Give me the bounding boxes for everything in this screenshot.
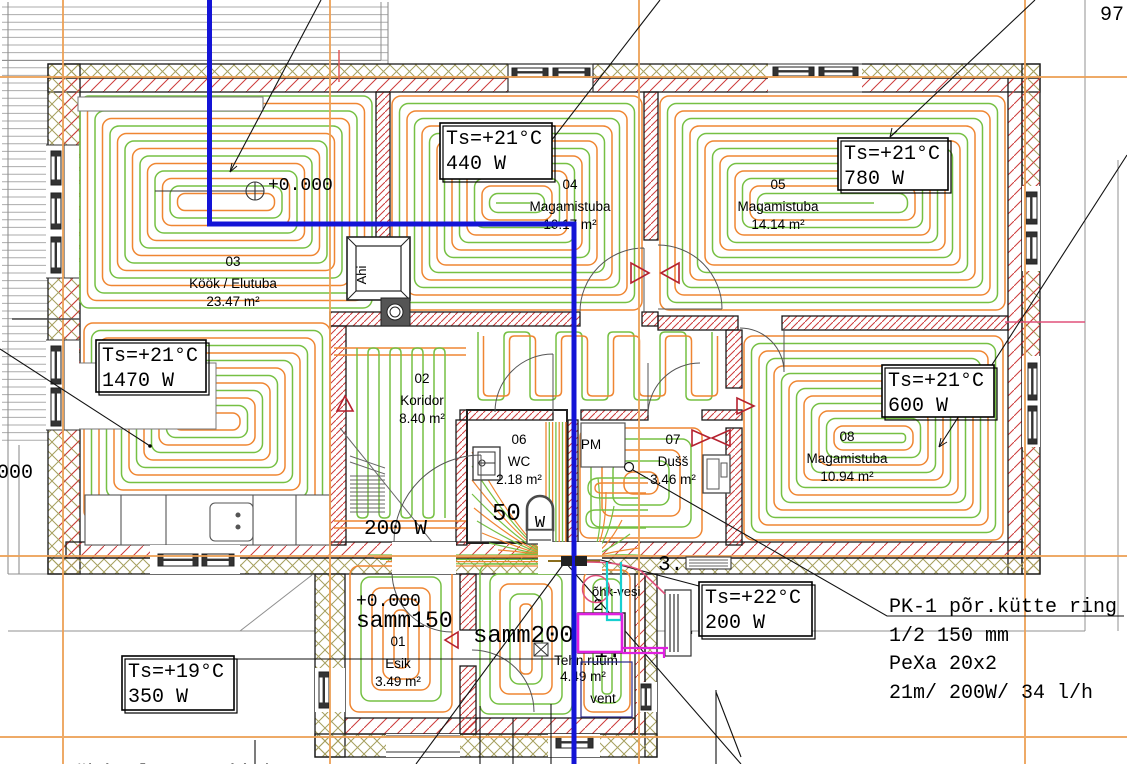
wall room05|room08 bbox=[658, 316, 738, 330]
svg-text:õhk-vesi: õhk-vesi bbox=[592, 584, 641, 599]
bottom wall windows left bbox=[150, 545, 240, 574]
svg-text:Ts=+21°C: Ts=+21°C bbox=[844, 143, 940, 166]
building outline fill bbox=[48, 64, 1040, 757]
svg-text:Magamistuba: Magamistuba bbox=[737, 199, 819, 214]
svg-text:21m/ 200W/ 34 l/h: 21m/ 200W/ 34 l/h bbox=[889, 682, 1093, 705]
door arcs bbox=[392, 245, 784, 712]
svg-text:05: 05 bbox=[770, 177, 785, 192]
svg-text:200 W: 200 W bbox=[364, 518, 427, 541]
svg-text:97: 97 bbox=[1100, 4, 1124, 27]
annex left wall window bbox=[315, 668, 345, 712]
manifold symbol overdraw bbox=[561, 556, 572, 566]
svg-text:WC: WC bbox=[508, 454, 531, 469]
õhk-vesi circle bbox=[583, 576, 610, 603]
kitchen counter bbox=[85, 495, 330, 545]
svg-text:03: 03 bbox=[225, 254, 240, 269]
Ahi stove bbox=[347, 237, 410, 326]
label box Ts4 bbox=[882, 365, 997, 420]
leader arrowheads bbox=[230, 128, 947, 447]
outdoor unit 2. bbox=[665, 590, 691, 656]
svg-text:01: 01 bbox=[390, 634, 405, 649]
crimson line right bbox=[1005, 321, 1085, 323]
svg-text:440 W: 440 W bbox=[446, 153, 506, 176]
annex left wall bbox=[315, 574, 345, 757]
svg-text:Dušš: Dušš bbox=[658, 454, 689, 469]
manifold symbol bbox=[561, 556, 572, 566]
svg-text:samm200: samm200 bbox=[473, 623, 574, 650]
terrace hatch area bbox=[2, 7, 388, 440]
level symbol +0.000 bbox=[155, 182, 264, 200]
svg-text:3.49 m²: 3.49 m² bbox=[375, 674, 421, 689]
svg-text:Ts=+22°C: Ts=+22°C bbox=[705, 587, 801, 610]
magenta pipe bbox=[578, 614, 668, 658]
svg-text:W: W bbox=[535, 514, 546, 533]
svg-text:PeXa 20x2: PeXa 20x2 bbox=[889, 653, 997, 676]
terrace step outline bbox=[240, 575, 312, 631]
svg-text:3.46 m²: 3.46 m² bbox=[650, 472, 696, 487]
svg-text:Köök / Elutuba: Köök / Elutuba bbox=[189, 276, 277, 291]
annex right wall window bbox=[637, 682, 657, 712]
svg-text:10.94 m²: 10.94 m² bbox=[820, 469, 874, 484]
blue supply pipe bbox=[210, 0, 575, 764]
red door triangles bbox=[337, 263, 754, 648]
manifold fan of pipes bbox=[368, 452, 650, 566]
svg-text:vent: vent bbox=[590, 691, 616, 706]
svg-text:2.18 m²: 2.18 m² bbox=[496, 472, 542, 487]
svg-text:8.40 m²: 8.40 m² bbox=[399, 411, 445, 426]
wall room03|room04 bbox=[376, 92, 390, 240]
svg-text:04: 04 bbox=[562, 177, 578, 192]
red mark vertical bbox=[338, 50, 340, 82]
svg-text:23.47 m²: 23.47 m² bbox=[206, 294, 260, 309]
stairs bbox=[340, 428, 445, 558]
top wall window opening centre bbox=[508, 63, 593, 93]
opening manifold bbox=[538, 542, 602, 574]
heating loop room08 Magamistuba bbox=[744, 336, 1003, 540]
svg-text:Ts=+21°C: Ts=+21°C bbox=[446, 128, 542, 151]
label box Ts2 bbox=[838, 138, 951, 193]
exterior wall bottom (main block) bbox=[48, 558, 1040, 574]
wardrobe top of room03 bbox=[78, 97, 263, 111]
svg-text:Ahi: Ahi bbox=[354, 265, 369, 284]
svg-text:08: 08 bbox=[839, 429, 854, 444]
top wall window pair right bbox=[768, 63, 862, 93]
crimson pipe bbox=[586, 562, 665, 594]
duct 3. bbox=[686, 557, 731, 569]
svg-text:200 W: 200 W bbox=[705, 612, 765, 635]
wardrobe lower-left bbox=[78, 363, 216, 429]
svg-text:Koridor: Koridor bbox=[400, 393, 444, 408]
svg-text:Ts=+21°C: Ts=+21°C bbox=[102, 345, 198, 368]
label box Ts3 bbox=[96, 340, 209, 395]
heating loop room05 Magamistuba bbox=[660, 96, 1005, 310]
svg-text:600 W: 600 W bbox=[888, 395, 948, 418]
annex bottom window bbox=[548, 734, 600, 757]
left wall windows bbox=[46, 145, 79, 278]
floor drain X-box bbox=[534, 643, 548, 656]
boiler W bbox=[527, 496, 553, 544]
svg-text:Magamistuba: Magamistuba bbox=[806, 451, 888, 466]
shower fixture bbox=[703, 455, 730, 493]
wall wc|pm bbox=[568, 420, 578, 545]
wall corridor|room08 bbox=[726, 330, 742, 388]
PM floor pipes bbox=[586, 478, 648, 528]
svg-text:1/2 150 mm: 1/2 150 mm bbox=[889, 625, 1009, 648]
heating loop corridor east field serpentine bbox=[478, 332, 712, 400]
right wall windows bbox=[1022, 186, 1040, 271]
svg-text:06: 06 bbox=[511, 432, 526, 447]
washing machine PM bbox=[581, 423, 625, 467]
svg-text:PK-1 põr.kütte ring: PK-1 põr.kütte ring bbox=[889, 596, 1117, 619]
svg-text:780 W: 780 W bbox=[844, 168, 904, 191]
svg-text:Magamistuba: Magamistuba bbox=[529, 199, 611, 214]
heating loop corridor east field return bbox=[484, 336, 718, 396]
indoor unit 1. bbox=[578, 613, 625, 653]
svg-text:14.14 m²: 14.14 m² bbox=[751, 217, 805, 232]
label box Ts1 bbox=[440, 123, 555, 182]
svg-text:samm150: samm150 bbox=[356, 608, 453, 634]
heating loop room04 Magamistuba bbox=[392, 96, 642, 310]
exterior wall left bbox=[48, 64, 80, 574]
heating loop loop B (1470W) bbox=[84, 323, 330, 520]
WC room outline bbox=[467, 410, 567, 543]
svg-text:Esik: Esik bbox=[385, 656, 411, 671]
svg-text:350 W: 350 W bbox=[128, 686, 188, 709]
corridor return pipes bbox=[334, 348, 466, 528]
pipe bundle to manifold bbox=[546, 422, 566, 552]
svg-text:1470 W: 1470 W bbox=[102, 370, 174, 393]
svg-text:4.49 m²: 4.49 m² bbox=[560, 669, 606, 684]
exterior wall right bbox=[1022, 64, 1040, 574]
svg-text:3.: 3. bbox=[658, 554, 683, 577]
wall below room04 bbox=[330, 312, 580, 326]
wall room04|room05 bbox=[644, 92, 658, 240]
wall corridor|wc bbox=[456, 420, 467, 545]
annex bottom wall bbox=[315, 734, 657, 757]
svg-text:Ts=+21°C: Ts=+21°C bbox=[888, 370, 984, 393]
heating loop room03 Köök/Elutuba bbox=[80, 96, 372, 308]
vent box bbox=[581, 662, 632, 717]
svg-text:07: 07 bbox=[665, 432, 680, 447]
exterior wall top bbox=[48, 64, 1040, 78]
svg-text:PM: PM bbox=[581, 437, 601, 452]
section line left bbox=[12, 318, 80, 320]
heating loop corridor vertical serpentine bbox=[357, 348, 445, 518]
annex bottom door bbox=[386, 734, 460, 757]
svg-text:50: 50 bbox=[492, 501, 521, 528]
wall esik|tehn bbox=[460, 574, 476, 630]
heating loop room01 Esik bbox=[350, 566, 452, 712]
heating loop room07 Dušš bbox=[580, 428, 702, 538]
cyan pipe bbox=[607, 562, 621, 620]
heating loop annex centre room bbox=[480, 564, 572, 714]
label box Ts5 bbox=[699, 582, 815, 639]
heating loop Tehn.ruum bbox=[584, 570, 630, 712]
label box Ts6 bbox=[122, 656, 237, 713]
svg-text:000: 000 bbox=[0, 462, 33, 485]
svg-text:02: 02 bbox=[414, 371, 429, 386]
wall kitchen|corridor bbox=[330, 326, 346, 545]
svg-text:Ts=+19°C: Ts=+19°C bbox=[128, 661, 224, 684]
svg-text:+0.000: +0.000 bbox=[268, 176, 333, 196]
annex right wall bbox=[645, 574, 657, 757]
WC sink bbox=[473, 447, 500, 480]
wall corridor|wc/dush bbox=[460, 410, 553, 420]
opening corridor->esik bbox=[392, 542, 456, 574]
